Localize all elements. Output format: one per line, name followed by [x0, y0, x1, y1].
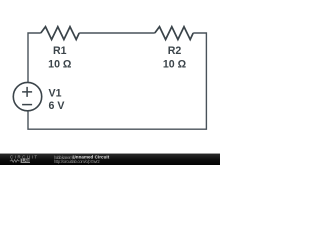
svg-text:10 Ω: 10 Ω — [48, 59, 72, 71]
wire: R2 to top-right corner, right side, bottom, up to V1 bottom — [28, 33, 206, 129]
resistor R2 — [155, 27, 193, 40]
V1 minus sign — [22, 104, 32, 106]
V1 plus sign — [22, 87, 32, 97]
svg-text:10 Ω: 10 Ω — [163, 59, 187, 71]
wire: V1 top to top-left corner to R1 — [28, 33, 41, 83]
svg-text:6 V: 6 V — [49, 100, 65, 112]
CircuitLab logo: LAB box — [21, 159, 30, 163]
svg-text:LAB: LAB — [22, 158, 31, 163]
svg-text:R1: R1 — [53, 45, 67, 57]
resistor R1 — [41, 27, 79, 40]
svg-text:R2: R2 — [168, 45, 182, 57]
CircuitLab logo: resistor zigzag — [10, 160, 20, 163]
svg-text:V1: V1 — [49, 88, 62, 100]
wire: between R1 and R2 — [79, 32, 155, 34]
voltage source V1 circle — [13, 82, 41, 110]
svg-text:http://circuitlab.com/c/p7avr2: http://circuitlab.com/c/p7avr2 — [54, 159, 100, 164]
